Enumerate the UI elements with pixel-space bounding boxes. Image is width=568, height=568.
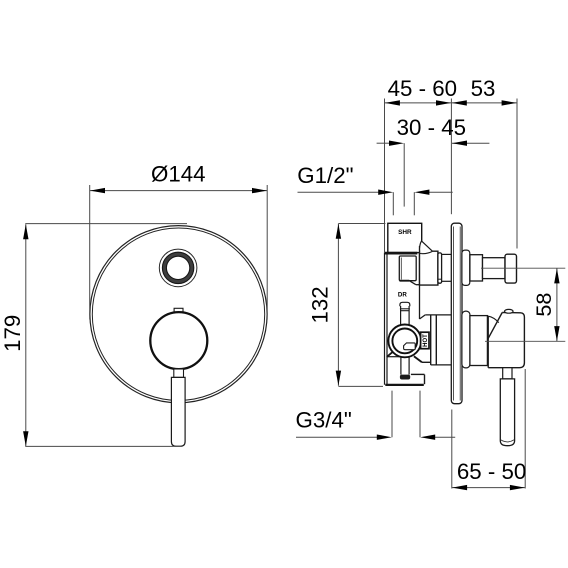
svg-text:G3/4": G3/4" bbox=[296, 408, 352, 433]
svg-text:53: 53 bbox=[471, 76, 496, 101]
svg-text:HOT: HOT bbox=[423, 334, 429, 347]
svg-text:65 - 50: 65 - 50 bbox=[457, 459, 526, 484]
svg-text:179: 179 bbox=[0, 315, 25, 352]
svg-text:45 - 60: 45 - 60 bbox=[388, 76, 457, 101]
svg-text:DR: DR bbox=[398, 292, 407, 299]
svg-text:30 - 45: 30 - 45 bbox=[397, 115, 466, 140]
svg-text:SHR: SHR bbox=[398, 229, 412, 236]
svg-text:G1/2": G1/2" bbox=[297, 163, 353, 188]
svg-text:58: 58 bbox=[531, 293, 556, 317]
svg-text:132: 132 bbox=[307, 286, 332, 323]
svg-text:Ø144: Ø144 bbox=[151, 162, 206, 187]
